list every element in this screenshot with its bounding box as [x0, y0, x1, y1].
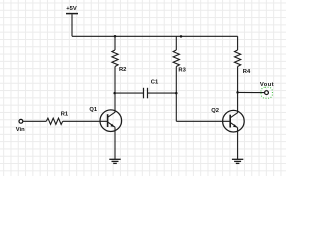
- wire Q2 collector lead: [237, 92, 239, 113]
- svg-text:Q1: Q1: [89, 107, 98, 113]
- wire R3 top lead: [175, 36, 177, 50]
- svg-text:R4: R4: [243, 69, 251, 75]
- node junction R3/C1: [175, 92, 178, 95]
- wire C1 right lead: [148, 92, 177, 94]
- resistor R1: [46, 118, 62, 124]
- wire to Vout: [238, 91, 265, 93]
- wire Q1 emitter lead: [114, 127, 116, 159]
- wire Q1 collector lead: [114, 93, 116, 112]
- svg-text:R2: R2: [119, 67, 126, 73]
- wire C1 left lead: [115, 92, 144, 94]
- wire rail corner to R4: [237, 36, 239, 50]
- svg-text:R3: R3: [178, 68, 186, 74]
- capacitor C1: [144, 88, 148, 99]
- node junction R2/C1: [113, 92, 116, 95]
- node junction rail/R3: [180, 35, 183, 38]
- wire power lead down: [71, 14, 73, 36]
- wire R3 node down to Q2 base row: [175, 93, 177, 121]
- ground under Q2: [232, 159, 243, 163]
- transistor Q2: [223, 110, 245, 132]
- wire R4 bottom lead: [237, 67, 239, 93]
- svg-text:+5V: +5V: [66, 6, 77, 12]
- wire R2 bottom lead: [114, 67, 116, 94]
- resistor R3: [173, 50, 179, 66]
- node junction rail/R2: [114, 35, 117, 38]
- wire +5V rail: [72, 35, 238, 37]
- svg-text:R1: R1: [61, 112, 69, 118]
- transistor Q1: [100, 110, 122, 132]
- wire Vin to R1: [23, 120, 46, 122]
- ground under Q1: [109, 159, 120, 163]
- terminal Vout selection box: [261, 87, 272, 98]
- wire Q2 emitter lead: [237, 128, 239, 160]
- node junction R4/Q2 collector/Vout: [236, 91, 239, 94]
- wire R1 to Q1 base: [63, 120, 108, 122]
- terminal Vin: [19, 119, 23, 123]
- svg-text:Vin: Vin: [16, 127, 25, 133]
- svg-text:C1: C1: [151, 79, 159, 85]
- svg-text:Vout: Vout: [260, 82, 274, 88]
- wire R3 bottom lead: [175, 67, 177, 94]
- wire R2 top lead: [114, 36, 116, 50]
- terminal Vout: [265, 91, 269, 95]
- resistor R4: [235, 50, 241, 66]
- wire Q2 base: [176, 120, 230, 122]
- svg-text:Q2: Q2: [211, 108, 219, 114]
- power +5V symbol: [66, 13, 78, 15]
- resistor R2: [112, 50, 118, 66]
